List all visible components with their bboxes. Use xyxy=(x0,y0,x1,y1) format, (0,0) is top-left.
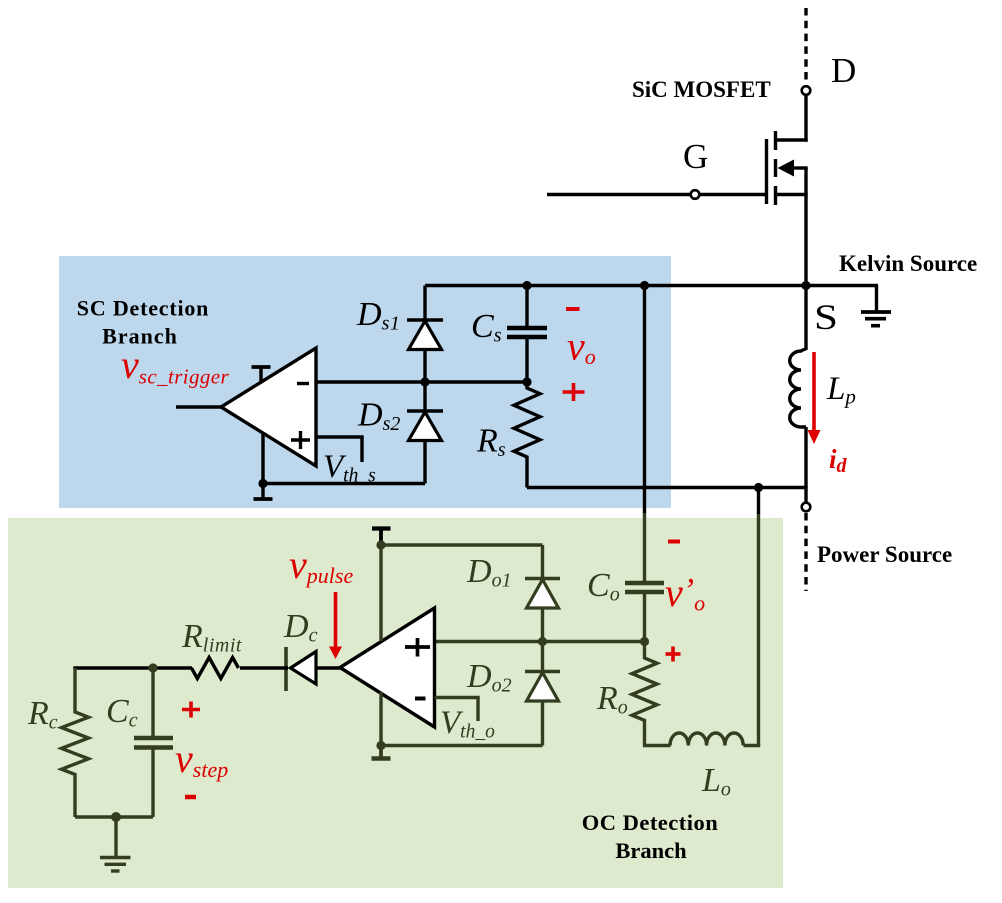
svg-text:Kelvin Source: Kelvin Source xyxy=(839,251,977,276)
node junction supply rail OC xyxy=(376,540,385,549)
svg-text:S: S xyxy=(814,297,838,337)
wire: Co branch vertical black part xyxy=(643,286,646,515)
label minus v'o xyxy=(668,540,680,544)
label D xyxy=(831,51,856,90)
resistor Ro xyxy=(632,642,657,746)
wire: power source rail xyxy=(527,486,806,503)
node junction kelvin-source xyxy=(801,281,810,290)
wire: gate lead xyxy=(547,193,766,196)
label SC Detection Branch xyxy=(77,296,209,349)
label OC Detection Branch xyxy=(582,810,719,863)
label Ds1 xyxy=(356,296,400,335)
capacitor Co xyxy=(625,583,664,642)
node power source terminal xyxy=(802,503,811,512)
node junction Lo-branch xyxy=(754,483,763,492)
wire: Co branch vertical olive part xyxy=(643,513,646,581)
svg-text:Power Source: Power Source xyxy=(817,542,952,567)
label S xyxy=(814,297,838,337)
svg-text:G: G xyxy=(683,137,708,176)
label Power Source xyxy=(817,542,952,567)
label Cs xyxy=(471,308,502,347)
wire: Rc-Cc bottom rail xyxy=(75,815,153,818)
resistor R_limit xyxy=(191,658,238,679)
node junction Co-branch-top xyxy=(640,281,649,290)
wire: Lo right leg to power rail xyxy=(757,488,760,746)
label minus vo xyxy=(566,307,580,311)
svg-text:OC Detection: OC Detection xyxy=(582,810,719,835)
label Lo xyxy=(701,762,731,801)
label Co xyxy=(587,567,620,606)
power stub comparator OC V- xyxy=(379,692,382,746)
label vo xyxy=(567,324,596,370)
power stub comparator OC V+ xyxy=(372,528,391,641)
label Ro xyxy=(596,680,628,719)
label Vth_s xyxy=(323,449,376,487)
node junction Cs-Rs xyxy=(522,377,531,386)
ground stub comparator OC xyxy=(372,746,391,759)
svg-text:SC Detection: SC Detection xyxy=(77,296,209,321)
wire: kelvin source rail xyxy=(425,284,878,287)
op-amp U2 comparator OC xyxy=(340,608,435,727)
power stub comparator V- xyxy=(261,433,264,484)
label G xyxy=(683,137,708,176)
op-amp U1 comparator xyxy=(221,348,316,466)
inductor Lp xyxy=(790,286,806,488)
label Cc xyxy=(106,693,138,732)
svg-text:D: D xyxy=(831,51,856,90)
label v_pulse xyxy=(289,542,353,588)
capacitor Cc xyxy=(134,668,173,817)
label Dc xyxy=(283,608,318,647)
label SiC MOSFET xyxy=(632,77,771,102)
wire: comparator output xyxy=(176,405,222,408)
node junction Cc-top xyxy=(148,663,157,672)
wire: drain dashed stub xyxy=(804,8,807,83)
wire: source down to kelvin node xyxy=(804,168,807,287)
svg-text:Branch: Branch xyxy=(102,324,178,349)
label id xyxy=(829,444,848,477)
diode Dc xyxy=(240,647,316,691)
ground stub comparator xyxy=(254,484,273,500)
ground OC branch xyxy=(100,817,131,871)
power stub comparator V+ xyxy=(252,367,271,383)
wire: top rail to Do1 xyxy=(381,545,543,578)
wire: comparator OC bottom rail xyxy=(381,744,543,747)
node junction comparator OC ground xyxy=(376,741,385,750)
label Do2 xyxy=(466,658,512,697)
label Do1 xyxy=(466,553,512,592)
label v_sc_trigger xyxy=(121,342,230,389)
label minus v_step xyxy=(185,795,196,800)
label Rc xyxy=(27,695,58,734)
diode Ds2 xyxy=(407,382,443,441)
wire: drain lead xyxy=(774,95,808,142)
node junction ground Cc xyxy=(111,812,121,822)
wire: R_limit to Cc node xyxy=(73,666,192,669)
svg-text:Branch: Branch xyxy=(615,838,687,863)
wire: opamp output to Dc xyxy=(315,666,342,669)
label Ds2 xyxy=(357,397,400,436)
svg-text:SiC MOSFET: SiC MOSFET xyxy=(632,77,771,102)
resistor Rc xyxy=(62,668,89,817)
inductor Lo xyxy=(643,733,760,746)
arrow v_pulse xyxy=(329,592,342,659)
node junction Co-Ro xyxy=(640,637,649,646)
current arrow id xyxy=(808,352,821,444)
node junction Cs-top xyxy=(522,281,531,290)
transistor SiC MOSFET xyxy=(767,131,808,205)
label R_limit xyxy=(181,618,242,657)
label plus vo xyxy=(563,383,585,401)
capacitor Cs xyxy=(507,286,547,383)
label Lp xyxy=(826,371,856,409)
ground kelvin xyxy=(861,286,891,326)
wire: power source dashed stub xyxy=(804,513,807,591)
resistor Rs xyxy=(514,382,540,488)
wire: inverting input to Vth_o xyxy=(435,698,480,722)
label Vth_o xyxy=(440,705,495,743)
SC detection branch background xyxy=(59,256,671,508)
wire: comparator bottom rail xyxy=(263,442,425,484)
label v'o xyxy=(665,570,705,616)
diode Ds1 xyxy=(407,286,443,383)
label plus v'o xyxy=(666,647,681,662)
wire: noninverting rail OC xyxy=(435,640,645,643)
node D terminal xyxy=(802,86,811,95)
wire: noninverting input to Vth_s xyxy=(316,437,364,462)
node junction Ds1-Ds2 xyxy=(420,377,429,386)
node junction Do1-Do2 xyxy=(538,637,547,646)
wire: inverting input rail xyxy=(316,380,527,383)
diode Do2 xyxy=(525,642,560,746)
label Rs xyxy=(476,423,506,462)
label plus v_step xyxy=(182,702,200,718)
node gate terminal xyxy=(691,190,700,199)
node junction comparator ground xyxy=(258,479,267,488)
label Kelvin Source xyxy=(839,251,977,276)
label v_step xyxy=(175,736,228,782)
diode Do1 xyxy=(525,579,560,642)
OC detection branch background xyxy=(8,518,783,888)
